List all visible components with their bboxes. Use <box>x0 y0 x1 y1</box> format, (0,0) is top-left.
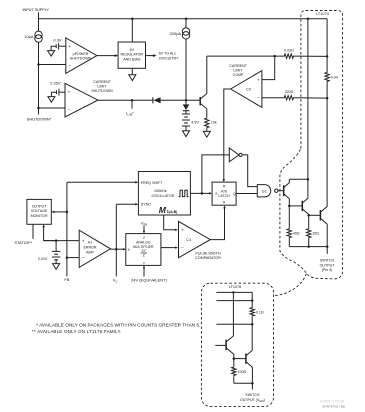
wire C1 output to latch R bottom <box>210 207 224 239</box>
wire Q2 emitter to R15 <box>308 215 310 228</box>
svg-text:−: − <box>68 63 71 68</box>
battery B3 4.5V stack <box>182 113 190 115</box>
wire C2 plus input <box>262 56 275 80</box>
svg-text:VC: VC <box>113 278 118 284</box>
wire to inverter input <box>202 155 229 194</box>
svg-text:* AVAILABLE ONLY ON PACKAGES W: * AVAILABLE ONLY ON PACKAGES WITH PIN CO… <box>36 323 200 328</box>
wire I2 to rail <box>185 19 187 28</box>
op-amp A1 error amp <box>79 230 110 267</box>
dashed outline LT1074 region <box>280 11 343 279</box>
node Q1 emitter junction <box>288 205 291 208</box>
wire STATUS stub <box>32 224 34 239</box>
wire A3 inverting input <box>39 107 66 109</box>
multiplier fraction bar <box>141 252 147 254</box>
svg-text:0.1Ω: 0.1Ω <box>256 310 264 314</box>
node rail-I2 junction <box>185 18 188 21</box>
wire output bottom rail <box>289 246 327 248</box>
wire A1 output to multiplier X <box>111 248 125 250</box>
node bottom rail R15 <box>307 245 310 248</box>
node lineB 320ohm junction <box>326 97 329 100</box>
arrowhead FREQ SHIFT <box>135 181 138 184</box>
resistor R5 10k <box>205 117 209 128</box>
node clamp junction <box>185 99 188 102</box>
inset wire supply stub <box>216 291 252 293</box>
wire oscillator output to latch S <box>190 192 210 194</box>
ground below 6V regulator <box>129 75 136 81</box>
resistor R2 320ohm <box>284 96 295 100</box>
node rail-lineA junction <box>307 18 310 21</box>
block 6V REGULATOR AND BIAS <box>118 42 145 68</box>
gate G1 <box>257 185 278 197</box>
comparator A3 CURRENT LIMIT SHUTDOWN <box>65 83 98 117</box>
svg-text:6V TO ALL: 6V TO ALL <box>159 52 177 56</box>
node shutdown-A3 junction <box>37 107 40 110</box>
svg-text:100kHz: 100kHz <box>154 189 167 193</box>
svg-text:FB: FB <box>64 277 69 282</box>
svg-text:1074/76 F01 • BD: 1074/76 F01 • BD <box>322 404 345 408</box>
inverter U3 <box>229 148 242 162</box>
svg-text:μPOWER: μPOWER <box>73 52 89 56</box>
svg-text:VOLTAGE: VOLTAGE <box>31 209 48 213</box>
transistor Q2 driver2 <box>301 201 303 212</box>
label R/S LATCH <box>218 190 230 198</box>
svg-text:0.04: 0.04 <box>331 76 338 80</box>
wire R15 to bottom rail <box>308 239 310 247</box>
svg-text:100Ω: 100Ω <box>238 370 247 374</box>
transistor Q4 clamp <box>199 97 201 105</box>
arrowhead C1 into latch <box>223 205 226 208</box>
svg-text:CIRCUITRY: CIRCUITRY <box>159 57 180 61</box>
svg-text:INPUT SUPPLY: INPUT SUPPLY <box>23 8 50 12</box>
svg-text:AND BIAS: AND BIAS <box>123 57 141 61</box>
svg-text:0.3V: 0.3V <box>53 38 62 43</box>
arrowhead into multiplier X <box>123 248 126 250</box>
wire VC line <box>115 204 117 276</box>
svg-text:M: M <box>159 205 167 215</box>
wire diode to clamp base <box>161 99 200 101</box>
svg-text:XY: XY <box>141 249 146 253</box>
watermark figure number <box>320 400 345 409</box>
wire lineB upper <box>326 19 328 72</box>
transistor Q6 inset output <box>245 353 247 363</box>
inset wire bottom rail <box>234 382 253 384</box>
svg-text:STATUS**: STATUS** <box>14 240 32 245</box>
svg-text:Z: Z <box>143 236 145 240</box>
wire reference to monitor <box>44 226 57 241</box>
block oscillator <box>138 172 190 216</box>
resistor R8 0.1ohm inset <box>250 307 254 317</box>
wire Q1 collector to lineA <box>289 178 308 180</box>
arrowhead into monitor <box>51 211 54 214</box>
node bottom rail Q3 <box>326 245 329 248</box>
svg-text:24V (EQUIVALENT): 24V (EQUIVALENT) <box>131 277 168 282</box>
wire shutdown rail lower <box>38 42 40 114</box>
svg-text:C1: C1 <box>186 237 192 242</box>
block OUTPUT VOLTAGE MONITOR <box>27 199 51 224</box>
svg-text:COMP: COMP <box>233 73 244 77</box>
wire multiplier output to C1 minus <box>161 247 177 249</box>
wire top supply rail <box>39 18 328 20</box>
wire Q3 emitter down <box>326 225 328 247</box>
svg-text:C2: C2 <box>246 87 252 92</box>
node FB A1 junction <box>66 256 69 259</box>
wire 6V regulator output <box>146 55 156 57</box>
wire R40 to bottom rail <box>288 239 290 247</box>
inset pin label SWITCH OUTPUT VSW <box>240 393 265 403</box>
svg-text:LIMIT: LIMIT <box>97 85 107 89</box>
resistor R3 0.04ohm emitter sense <box>325 72 329 83</box>
block analog multiplier <box>126 234 161 266</box>
svg-text:OUTPUT (VSW): OUTPUT (VSW) <box>240 398 265 403</box>
svg-text:CURRENT: CURRENT <box>93 80 111 84</box>
wire SYNC input <box>116 203 137 205</box>
svg-text:LT1076: LT1076 <box>229 285 242 289</box>
resistor R1 0.03ohm <box>284 54 295 58</box>
wire 24V into multiplier <box>143 267 145 277</box>
svg-text:+: + <box>82 238 85 243</box>
resistor R6 40ohm <box>287 228 291 239</box>
comparator C1 pulse width <box>179 221 211 257</box>
svg-text:4.5V: 4.5V <box>191 120 199 124</box>
svg-text:SHUTDOWN: SHUTDOWN <box>70 57 92 61</box>
inset wire right line mid <box>251 317 253 351</box>
inset wire Q5 base stub <box>215 344 226 346</box>
wire A3 output to diode <box>98 99 153 101</box>
node oscillator output junction <box>201 192 204 195</box>
label OUTPUT VOLTAGE MONITOR <box>31 204 48 218</box>
svg-text:1(A•B): 1(A•B) <box>167 209 178 214</box>
arrowhead VFB down <box>143 231 145 234</box>
node Q2 emitter junction <box>307 214 310 217</box>
battery B2 2.35V with ground <box>48 80 65 102</box>
svg-text:REGULATOR: REGULATOR <box>120 53 143 57</box>
node ILIM junction <box>131 99 134 102</box>
svg-text:G1: G1 <box>262 188 268 193</box>
wire Q4 collector up <box>206 56 208 94</box>
svg-text:(Pin 4): (Pin 4) <box>322 268 333 272</box>
wire FB line <box>66 182 68 276</box>
inset wire right line upper <box>251 292 253 306</box>
arrowhead SYNC <box>135 203 138 206</box>
svg-text:CURRENT: CURRENT <box>229 64 247 68</box>
inset wire switch output stub <box>251 383 253 389</box>
inset wire Q5 emitter to Q6 base <box>234 358 246 360</box>
svg-text:SWITCH: SWITCH <box>245 393 260 397</box>
inset node supply-central junction <box>232 291 235 294</box>
wire ILIM pin stub <box>131 100 133 108</box>
inset node Q5 emitter junction <box>233 357 236 360</box>
wire 6V regulator ground stem <box>131 68 133 75</box>
arrowhead 24V up <box>143 265 145 268</box>
label uPOWER SHUTDOWN <box>70 52 92 61</box>
block R/S latch <box>212 182 236 205</box>
wire A2 inverting input <box>39 64 66 66</box>
inset wire to 100ohm <box>233 359 235 367</box>
wire Q4 emitter to R5 <box>206 109 208 117</box>
svg-text:OUTPUT: OUTPUT <box>320 263 336 267</box>
inset wire 320 stub <box>216 323 252 325</box>
current source I1 10uA <box>35 31 42 42</box>
wire latch Q output to G1 <box>236 193 257 195</box>
label A1 ERROR AMP <box>84 240 97 254</box>
node lineA Q1 junction <box>307 178 310 181</box>
wire Q4 collector to sense resistor <box>207 55 284 57</box>
wire FREQ SHIFT input <box>67 181 137 183</box>
arrowhead 6V to all circuitry <box>153 54 156 57</box>
wire Q1 emitter to Q2 base <box>289 205 302 207</box>
wire inverter output to G1 <box>242 155 257 187</box>
diode D2 clamp <box>183 100 190 114</box>
label 6V REGULATOR AND BIAS <box>120 48 143 61</box>
svg-text:LT1074 • LT1076: LT1074 • LT1076 <box>320 400 344 404</box>
svg-text:SHUTDOWN*: SHUTDOWN* <box>27 117 52 122</box>
inset node 320 junction <box>251 323 254 326</box>
svg-text:−: − <box>257 95 260 100</box>
node VC junction <box>115 248 118 251</box>
wire C2 minus input row <box>262 97 284 99</box>
svg-text:FREQ SHIFT: FREQ SHIFT <box>141 181 164 185</box>
wire INPUT SUPPLY stub <box>38 12 40 19</box>
wire FB to monitor input <box>53 211 67 213</box>
label PULSE WIDTH COMPARATOR <box>195 251 221 260</box>
svg-text:+: + <box>181 228 184 233</box>
resistor R9 100ohm inset <box>232 366 236 376</box>
label CURRENT LIMIT COMP <box>229 64 247 77</box>
svg-text:OUTPUT: OUTPUT <box>32 204 48 208</box>
svg-text:A1: A1 <box>88 240 92 244</box>
transistor Q5 inset driver <box>225 340 227 350</box>
arrowhead into 6V regulator <box>115 54 118 57</box>
battery B4 2.21V reference <box>55 241 57 252</box>
inset node sense junction <box>251 299 254 302</box>
svg-text:−: − <box>68 107 71 112</box>
arrowhead into C1 minus <box>175 246 178 248</box>
wire sense resistor to lineB <box>294 55 327 57</box>
diode D1 <box>153 97 161 103</box>
svg-text:SWITCH: SWITCH <box>320 259 335 263</box>
svg-text:+: + <box>257 77 260 82</box>
wire A2 output <box>97 55 117 57</box>
svg-text:−: − <box>181 245 184 250</box>
arrowhead C2 into latch <box>223 179 226 182</box>
svg-text:6V: 6V <box>130 48 135 52</box>
wire 6V regulator supply from rail <box>131 19 133 42</box>
svg-text:0.03Ω: 0.03Ω <box>284 49 294 53</box>
ground below R5 <box>203 131 210 137</box>
svg-text:320μA: 320μA <box>170 31 182 36</box>
svg-text:LIMIT: LIMIT <box>233 69 243 73</box>
svg-text:** AVAILABLE ONLY ON LT1176 FA: ** AVAILABLE ONLY ON LT1176 FAMILY. <box>32 329 122 334</box>
svg-text:LT1074: LT1074 <box>316 12 329 16</box>
label ANALOG MULTIPLIER <box>133 241 154 249</box>
comparator C2 current limit <box>231 71 262 108</box>
battery B1 0.3V with ground <box>48 38 66 57</box>
inset wire 100ohm to bottom <box>233 376 235 383</box>
svg-text:ERROR: ERROR <box>84 245 97 249</box>
svg-text:320Ω: 320Ω <box>285 90 294 94</box>
svg-text:+: + <box>68 44 71 49</box>
wire lineB lower <box>326 82 328 205</box>
wire Q1 emitter to R40 <box>288 206 290 228</box>
svg-text:15Ω: 15Ω <box>312 232 319 236</box>
wire Q2 emitter to Q3 base <box>309 214 320 216</box>
node FB monitor junction <box>66 211 69 214</box>
node C2 plus tap <box>273 55 276 58</box>
wire A1 plus input <box>44 240 80 242</box>
node reference junction <box>55 239 58 242</box>
current source I2 320uA <box>182 28 189 39</box>
node shutdown-A2 junction <box>37 63 40 66</box>
ground below B4 <box>53 264 60 270</box>
svg-text:40Ω: 40Ω <box>293 232 300 236</box>
wire A1 minus input <box>67 257 79 259</box>
pin label SWITCH OUTPUT (Pin 4) <box>320 259 336 273</box>
svg-text:2.21V: 2.21V <box>38 257 48 261</box>
wire shutdown rail upper <box>38 19 40 31</box>
comparator A2 uPOWER SHUTDOWN <box>66 38 97 74</box>
svg-text:OSCILLATOR: OSCILLATOR <box>151 194 174 198</box>
wire switch output stub <box>326 247 328 254</box>
arrowhead ref into monitor <box>42 224 45 227</box>
svg-text:SYNC: SYNC <box>141 202 152 206</box>
dashed connector to LT1076 inset <box>274 274 306 296</box>
wire C2 output to latch R <box>224 89 231 180</box>
svg-text:SHUTDOWN: SHUTDOWN <box>91 89 113 93</box>
arrowhead into latch S <box>209 192 212 195</box>
svg-text:+: + <box>68 90 71 95</box>
label 6V TO ALL CIRCUITRY <box>159 52 180 61</box>
svg-text:−: − <box>82 255 85 260</box>
wire 320ohm to lineB <box>294 97 327 99</box>
inset wire sense stub <box>216 300 252 302</box>
transistor Q3 output <box>319 210 321 220</box>
svg-text:LATCH: LATCH <box>218 194 230 198</box>
svg-text:2.35V: 2.35V <box>50 80 61 85</box>
resistor R7 15ohm <box>307 228 311 239</box>
arrowhead into C1 plus <box>175 229 178 231</box>
dashed box LT1076 inset <box>201 283 273 406</box>
wire G1 output to Q1 base <box>278 190 284 192</box>
label CURRENT LIMIT SHUTDOWN <box>91 80 113 93</box>
node lineB sense junction <box>326 55 329 58</box>
label M1(AxB) multiplier name <box>159 205 177 215</box>
wire I2 to clamp junction <box>185 39 187 100</box>
inset wire central line <box>232 292 234 336</box>
wire lineA collector feed <box>307 19 309 197</box>
svg-text:PULSE WIDTH: PULSE WIDTH <box>195 251 221 255</box>
inset node bottom rail <box>251 382 254 385</box>
svg-text:10k: 10k <box>211 120 217 124</box>
svg-text:AMP: AMP <box>86 250 94 254</box>
svg-text:ILIM*: ILIM* <box>126 111 134 117</box>
wire oscillator to C1 plus <box>164 215 177 230</box>
svg-text:VFB: VFB <box>141 220 147 226</box>
wire VFB into multiplier <box>143 226 145 232</box>
svg-text:MONITOR: MONITOR <box>31 214 48 218</box>
svg-text:S: S <box>215 192 217 196</box>
wire R5 to ground <box>206 129 208 132</box>
ground below B3 <box>183 131 190 137</box>
svg-text:COMPARATOR: COMPARATOR <box>195 256 221 260</box>
transistor Q1 driver <box>283 185 285 196</box>
svg-text:R/S: R/S <box>221 190 228 194</box>
svg-text:10μA: 10μA <box>24 34 34 39</box>
square wave glyph <box>179 190 189 196</box>
node rail-6Vreg junction <box>131 18 134 21</box>
